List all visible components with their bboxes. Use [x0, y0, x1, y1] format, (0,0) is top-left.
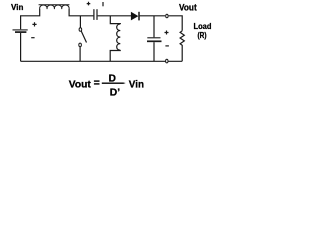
svg-text:Vout: Vout: [69, 80, 92, 91]
svg-text:D’: D’: [110, 87, 120, 98]
svg-text:Load: Load: [194, 21, 212, 31]
svg-text:D: D: [108, 74, 115, 85]
svg-text:(R): (R): [198, 31, 207, 40]
svg-text:Vin: Vin: [11, 2, 23, 12]
svg-text:=: =: [94, 78, 100, 89]
svg-text:Vout: Vout: [179, 3, 197, 13]
svg-text:Vin: Vin: [129, 80, 144, 91]
